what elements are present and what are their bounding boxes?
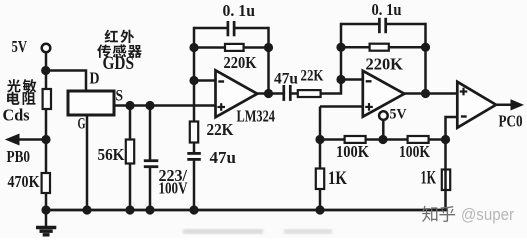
label 光敏 <box>7 79 36 92</box>
wire U3 inverting input from 100K right <box>446 117 458 140</box>
svg-text:22K: 22K <box>207 120 235 139</box>
junction node A <box>41 66 50 75</box>
wire 223 capacitor branch bottom <box>149 168 152 210</box>
svg-text:GDS: GDS <box>103 54 135 74</box>
wire 223 capacitor branch top <box>149 106 152 160</box>
wire 22K to U2 inverting input <box>321 80 363 94</box>
svg-text:S: S <box>116 88 124 105</box>
svg-text:1K: 1K <box>328 169 347 189</box>
resistor 220K body 1 <box>225 44 244 51</box>
wire node A down to ground node <box>45 71 48 209</box>
junction 100K right <box>441 135 450 144</box>
junction rail G <box>82 205 91 214</box>
resistor 1K right body <box>442 170 450 191</box>
svg-text:1K: 1K <box>421 169 437 189</box>
svg-text:5V: 5V <box>12 37 28 56</box>
comparator U3 <box>457 82 496 128</box>
watermark 知乎 <box>422 206 455 222</box>
wire 5V terminal down to node A <box>45 53 48 71</box>
svg-text:100V: 100V <box>159 179 189 198</box>
junction rail 1K left <box>315 205 324 214</box>
resistor 220K body 2 <box>370 44 389 51</box>
resistor 22K vertical body <box>190 122 198 143</box>
junction feedback left 1 <box>189 43 198 52</box>
svg-text:5V: 5V <box>390 107 407 123</box>
resistor 56K body <box>126 140 134 164</box>
svg-text:22K: 22K <box>301 68 324 85</box>
capacitor 47u vertical plates <box>187 152 201 155</box>
wire 220K feedback 2 <box>341 46 426 49</box>
wire U2 non-inverting input <box>320 105 363 108</box>
junction rail 56K <box>125 205 134 214</box>
svg-text:100K: 100K <box>399 142 430 161</box>
wire U1 output to 47u <box>257 92 283 95</box>
terminal 5V reference <box>379 111 388 120</box>
resistor 22K series body <box>298 90 321 97</box>
wire top loop 2 right <box>386 23 426 26</box>
svg-text:0. 1u: 0. 1u <box>223 1 256 20</box>
capacitor 47u coupling plates <box>282 85 285 101</box>
wire U2 output vertical x=425.5 <box>424 23 427 94</box>
wire G pin to ground rail <box>86 115 89 210</box>
junction U2 inverting node <box>336 75 345 84</box>
svg-text:@super: @super <box>461 206 514 224</box>
resistor 100K first body <box>345 136 366 143</box>
junction PB0 node <box>41 135 50 144</box>
junction rail 223 <box>145 205 154 214</box>
resistor 1K left body <box>316 169 324 190</box>
op-amp U1 LM324 <box>216 70 258 117</box>
wire S line to op-amp U1 + input <box>114 104 216 107</box>
wire top loop 1 left <box>194 27 227 30</box>
caption remnants <box>183 229 332 234</box>
junction feedback left 2 <box>336 43 345 52</box>
capacitor 0.1u second plates <box>378 18 381 33</box>
wire 56K branch <box>129 106 132 211</box>
svg-text:220K: 220K <box>366 55 404 74</box>
svg-text:Cds: Cds <box>3 106 30 125</box>
label 红外 <box>105 30 135 43</box>
junction U2 output <box>421 89 430 98</box>
wire 5V reference to 100K line <box>382 120 385 139</box>
junction feedback right 2 <box>421 43 430 52</box>
capacitor 223/100V plates <box>144 159 159 162</box>
resistor 470K body <box>42 173 50 193</box>
wire 47u to ground rail <box>193 161 196 210</box>
infrared sensor GDS box <box>68 91 114 115</box>
svg-text:G: G <box>78 116 86 133</box>
terminal 5V supply <box>42 44 51 53</box>
wire top loop 2 left <box>341 23 380 26</box>
svg-text:47u: 47u <box>210 148 237 167</box>
output arrow PC0 <box>496 104 511 107</box>
photoresistor Cds body <box>43 89 51 109</box>
label 传感器 <box>97 44 142 58</box>
wire 1K left branch vertical x=320 <box>319 107 322 211</box>
svg-text:PC0: PC0 <box>499 112 523 131</box>
junction feedback right 1 <box>264 43 273 52</box>
wire 47u to 22K <box>290 92 299 95</box>
wire feedback vertical x=341 <box>340 23 343 80</box>
label 电阻 <box>7 92 35 105</box>
junction U1 inverting node <box>189 76 198 85</box>
wire U2 output to U3 <box>404 92 458 95</box>
capacitor 0.1u plates <box>227 21 230 36</box>
junction rail ground node <box>41 205 50 214</box>
wire top loop 1 right <box>234 27 268 30</box>
svg-text:PB0: PB0 <box>7 147 31 166</box>
svg-text:0. 1u: 0. 1u <box>372 0 402 19</box>
svg-text:47u: 47u <box>274 71 298 88</box>
wire 100K divider line <box>320 138 446 141</box>
junction 100K middle <box>378 135 387 144</box>
svg-text:56K: 56K <box>98 145 126 164</box>
svg-text:100K: 100K <box>336 142 369 161</box>
ground symbol <box>45 208 48 227</box>
junction S node 1 <box>125 101 134 110</box>
ground rail <box>44 209 447 212</box>
wire output vertical x=268.5 <box>267 27 270 94</box>
wire feedback node vertical x=194 <box>193 27 196 153</box>
svg-text:D: D <box>90 69 100 88</box>
op-amp U2 <box>363 71 405 117</box>
svg-text:LM324: LM324 <box>237 107 276 126</box>
svg-text:470K: 470K <box>8 172 41 191</box>
junction rail 47u <box>189 205 198 214</box>
arrow to PB0 <box>13 138 46 141</box>
wire U1 inverting input <box>194 79 216 82</box>
junction U1 output <box>264 89 273 98</box>
resistor 100K second body <box>408 136 429 143</box>
svg-text:220K: 220K <box>224 53 258 72</box>
wire 220K feedback 1 <box>194 46 269 49</box>
wire 1K right to rail <box>444 140 447 211</box>
wire node A to sensor D pin <box>46 71 86 93</box>
junction 100K left <box>315 135 324 144</box>
junction S node 2 <box>145 101 154 110</box>
